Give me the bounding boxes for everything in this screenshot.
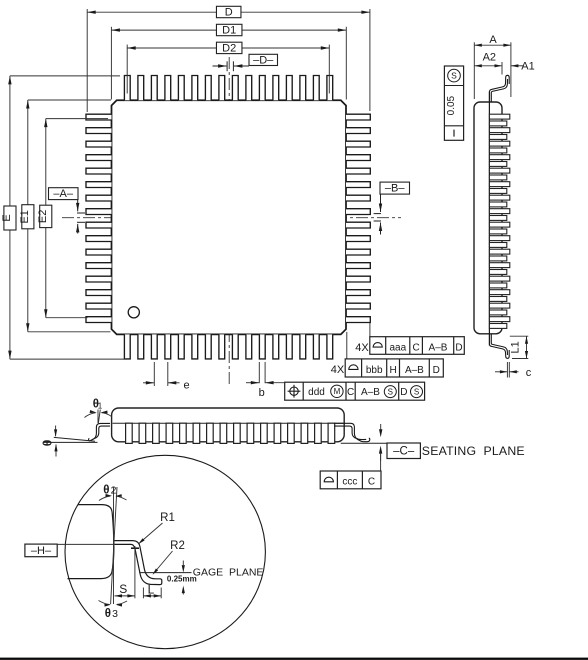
- svg-text:3: 3: [112, 608, 118, 620]
- svg-text:C: C: [412, 343, 419, 354]
- front view left end lead: [89, 423, 110, 440]
- svg-text:S: S: [388, 387, 393, 396]
- dimension E: [1, 76, 127, 359]
- svg-text:D: D: [400, 387, 407, 398]
- detail: body outline: [68, 505, 114, 579]
- svg-text:b: b: [259, 387, 265, 399]
- pin 1 index circle: [128, 307, 139, 318]
- svg-text:C: C: [347, 387, 354, 398]
- seating plane indicator arrows: [379, 424, 383, 461]
- detail: gage plane line: [139, 567, 263, 579]
- svg-text:S: S: [119, 582, 127, 596]
- detail: theta2 label: [99, 485, 127, 501]
- tolerance frame aaa (4X profile aaa C A-B D): [355, 323, 464, 355]
- seating plane line (right): [341, 428, 424, 443]
- svg-text:–D–: –D–: [253, 54, 274, 66]
- side view bottom gull-wing lead: [490, 334, 510, 359]
- svg-text:2: 2: [111, 485, 117, 497]
- dimension A: [474, 34, 511, 99]
- svg-text:D2: D2: [222, 43, 236, 55]
- svg-text:θ: θ: [105, 608, 111, 620]
- side view short leads: [489, 121, 506, 328]
- detail: dimension S: [115, 546, 135, 598]
- dimension D2: [127, 42, 329, 93]
- svg-text:–A–: –A–: [53, 188, 73, 200]
- datum -H-: [25, 544, 115, 557]
- svg-text:R1: R1: [160, 512, 175, 524]
- side view long leads: [489, 114, 509, 321]
- dimension A2: [474, 52, 502, 75]
- svg-text:A–B: A–B: [361, 387, 380, 398]
- svg-text:θ: θ: [40, 440, 54, 447]
- svg-text:S: S: [414, 387, 419, 396]
- side view lead bend line: [488, 92, 490, 346]
- svg-text:1: 1: [98, 402, 103, 411]
- top side pins: [124, 76, 332, 101]
- svg-text:R2: R2: [170, 540, 185, 552]
- svg-text:D: D: [433, 365, 440, 376]
- front view lead shoulder line: [113, 422, 344, 424]
- dimension L1: [510, 336, 529, 358]
- svg-text:A: A: [489, 34, 497, 46]
- detail: R1 label and leader: [138, 512, 175, 544]
- top view vertical centerline: [228, 57, 230, 386]
- svg-text:A–B: A–B: [429, 343, 448, 354]
- svg-text:c: c: [526, 367, 532, 379]
- svg-text:D: D: [225, 7, 233, 19]
- svg-text:A–B: A–B: [405, 365, 424, 376]
- dimension b: [246, 362, 285, 399]
- dimension D: [87, 6, 370, 112]
- page footer rule: [0, 658, 588, 660]
- svg-text:C: C: [368, 477, 375, 488]
- detail: lead profile: [115, 541, 162, 585]
- svg-text:0.05: 0.05: [446, 95, 457, 115]
- left side pins: [86, 114, 112, 322]
- svg-text:ccc: ccc: [342, 477, 357, 488]
- detail: dimension L: [143, 583, 161, 599]
- svg-text:D1: D1: [222, 25, 236, 37]
- svg-text:D: D: [455, 343, 462, 354]
- datum -C- box: [387, 443, 420, 459]
- dimension E2: [37, 119, 108, 318]
- svg-text:L: L: [148, 583, 155, 597]
- SEATING PLANE label: [422, 444, 525, 458]
- side view top gull-wing lead: [490, 75, 510, 102]
- svg-text:4X: 4X: [331, 364, 345, 376]
- datum -D-: [213, 54, 278, 71]
- svg-text:–B–: –B–: [385, 183, 405, 195]
- theta1 angle (left shoulder): [85, 399, 112, 424]
- dimension e: [143, 362, 190, 392]
- svg-text:bbb: bbb: [366, 365, 383, 376]
- svg-text:SEATING PLANE: SEATING PLANE: [422, 444, 525, 458]
- bottom side pins: [124, 334, 332, 359]
- top view horizontal centerline: [62, 217, 401, 219]
- svg-text:S: S: [451, 70, 457, 80]
- svg-text:E2: E2: [37, 210, 49, 223]
- svg-text:–C–: –C–: [393, 446, 415, 458]
- svg-text:A1: A1: [521, 60, 534, 72]
- detail: theta2/theta3 reference lines: [111, 487, 117, 604]
- side view body: [474, 102, 502, 334]
- tolerance frame ddd (position ddd M C A-B S D S): [285, 382, 425, 400]
- svg-text:0.25mm: 0.25mm: [167, 574, 197, 583]
- svg-text:4X: 4X: [355, 342, 369, 354]
- package body (top view): [112, 100, 347, 334]
- datum -A-: [49, 188, 86, 234]
- dimension c: [495, 362, 532, 379]
- svg-text:E1: E1: [19, 210, 31, 223]
- detail: theta3 label: [99, 601, 128, 621]
- detail view circle: [65, 455, 265, 648]
- svg-text:e: e: [183, 380, 189, 392]
- right side pins: [346, 114, 370, 322]
- svg-text:–H–: –H–: [31, 545, 52, 557]
- dimension D1: [111, 24, 346, 99]
- front view leads: [126, 423, 335, 443]
- svg-text:A2: A2: [483, 52, 496, 64]
- svg-text:L1: L1: [510, 341, 522, 353]
- flatness tolerance box 0.05 S: [444, 66, 463, 140]
- tolerance frame ccc: [320, 453, 381, 489]
- front view right end lead: [334, 423, 370, 441]
- datum -B-: [374, 182, 410, 234]
- seating line and theta angle (left): [40, 426, 97, 457]
- svg-text:aaa: aaa: [389, 343, 406, 354]
- detail: R2 label and leader: [153, 540, 185, 575]
- svg-text:H: H: [389, 365, 396, 376]
- svg-text:E: E: [1, 214, 13, 221]
- front view body: [112, 408, 345, 442]
- tolerance frame bbb (4X profile bbb H A-B D): [331, 332, 444, 377]
- detail: 0.25mm dimension: [167, 561, 197, 595]
- dimension E1: [19, 100, 111, 332]
- svg-text:M: M: [334, 387, 341, 396]
- svg-text:ddd: ddd: [308, 387, 325, 398]
- dimension A1: [511, 60, 535, 72]
- svg-text:GAGE PLANE: GAGE PLANE: [193, 567, 264, 579]
